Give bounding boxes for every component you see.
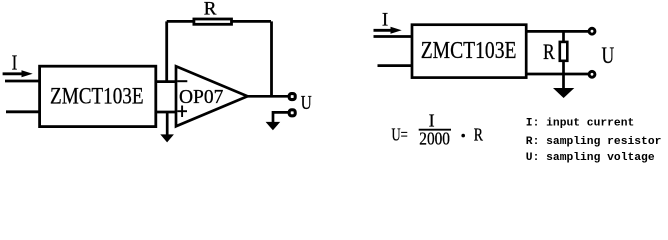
svg-text:U: sampling voltage: U: sampling voltage [526, 152, 655, 164]
svg-text:R: R [543, 40, 555, 65]
svg-text:U: U [301, 91, 312, 113]
wire primary top (right) [374, 35, 414, 38]
current direction arrow [3, 70, 33, 77]
op-amp U1 OP07 [176, 66, 248, 126]
ground (output) [266, 122, 281, 130]
terminal right bottom [589, 71, 595, 77]
svg-text:ZMCT103E: ZMCT103E [421, 36, 517, 64]
feedback wire right vertical [270, 21, 273, 96]
svg-text:I: I [12, 52, 18, 75]
wire primary top [5, 80, 41, 83]
terminal output top [289, 94, 295, 100]
wire secondary top (right) [526, 30, 589, 33]
wire noninverting input [156, 111, 176, 114]
svg-text:OP07: OP07 [179, 85, 223, 108]
svg-text:I: input current: I: input current [526, 118, 634, 130]
resistor R2 sampling, vertical [560, 31, 568, 74]
svg-text:R: R [204, 0, 217, 20]
wire inverting input [156, 80, 176, 83]
formula dot operator [461, 134, 465, 138]
wire primary bottom (right) [378, 64, 414, 67]
feedback wire top horizontal [167, 20, 271, 23]
resistor R1 (feedback) [194, 19, 232, 24]
svg-text:U=: U= [392, 125, 408, 145]
ground (sampling resistor) [553, 74, 574, 98]
terminal right top [589, 28, 595, 34]
svg-text:ZMCT103E: ZMCT103E [50, 83, 144, 109]
svg-text:I: I [382, 9, 388, 30]
svg-text:2000: 2000 [419, 128, 450, 148]
transformer T2 ZMCT103E box [412, 25, 526, 78]
feedback wire left vertical [165, 21, 168, 81]
output wire [247, 95, 290, 98]
svg-text:U: U [602, 43, 615, 69]
wire bottom terminal to ground [273, 112, 289, 122]
wire primary bottom [6, 110, 41, 113]
current direction arrow (right) [374, 27, 402, 34]
ground (noninverting input) [160, 112, 174, 142]
terminal output bottom [289, 110, 295, 116]
svg-text:R: R [474, 126, 484, 145]
formula fraction bar [419, 129, 451, 131]
svg-text:R: sampling resistor: R: sampling resistor [526, 136, 662, 148]
transformer T1 ZMCT103E box [40, 66, 156, 126]
wire secondary bottom (right) [526, 73, 589, 76]
